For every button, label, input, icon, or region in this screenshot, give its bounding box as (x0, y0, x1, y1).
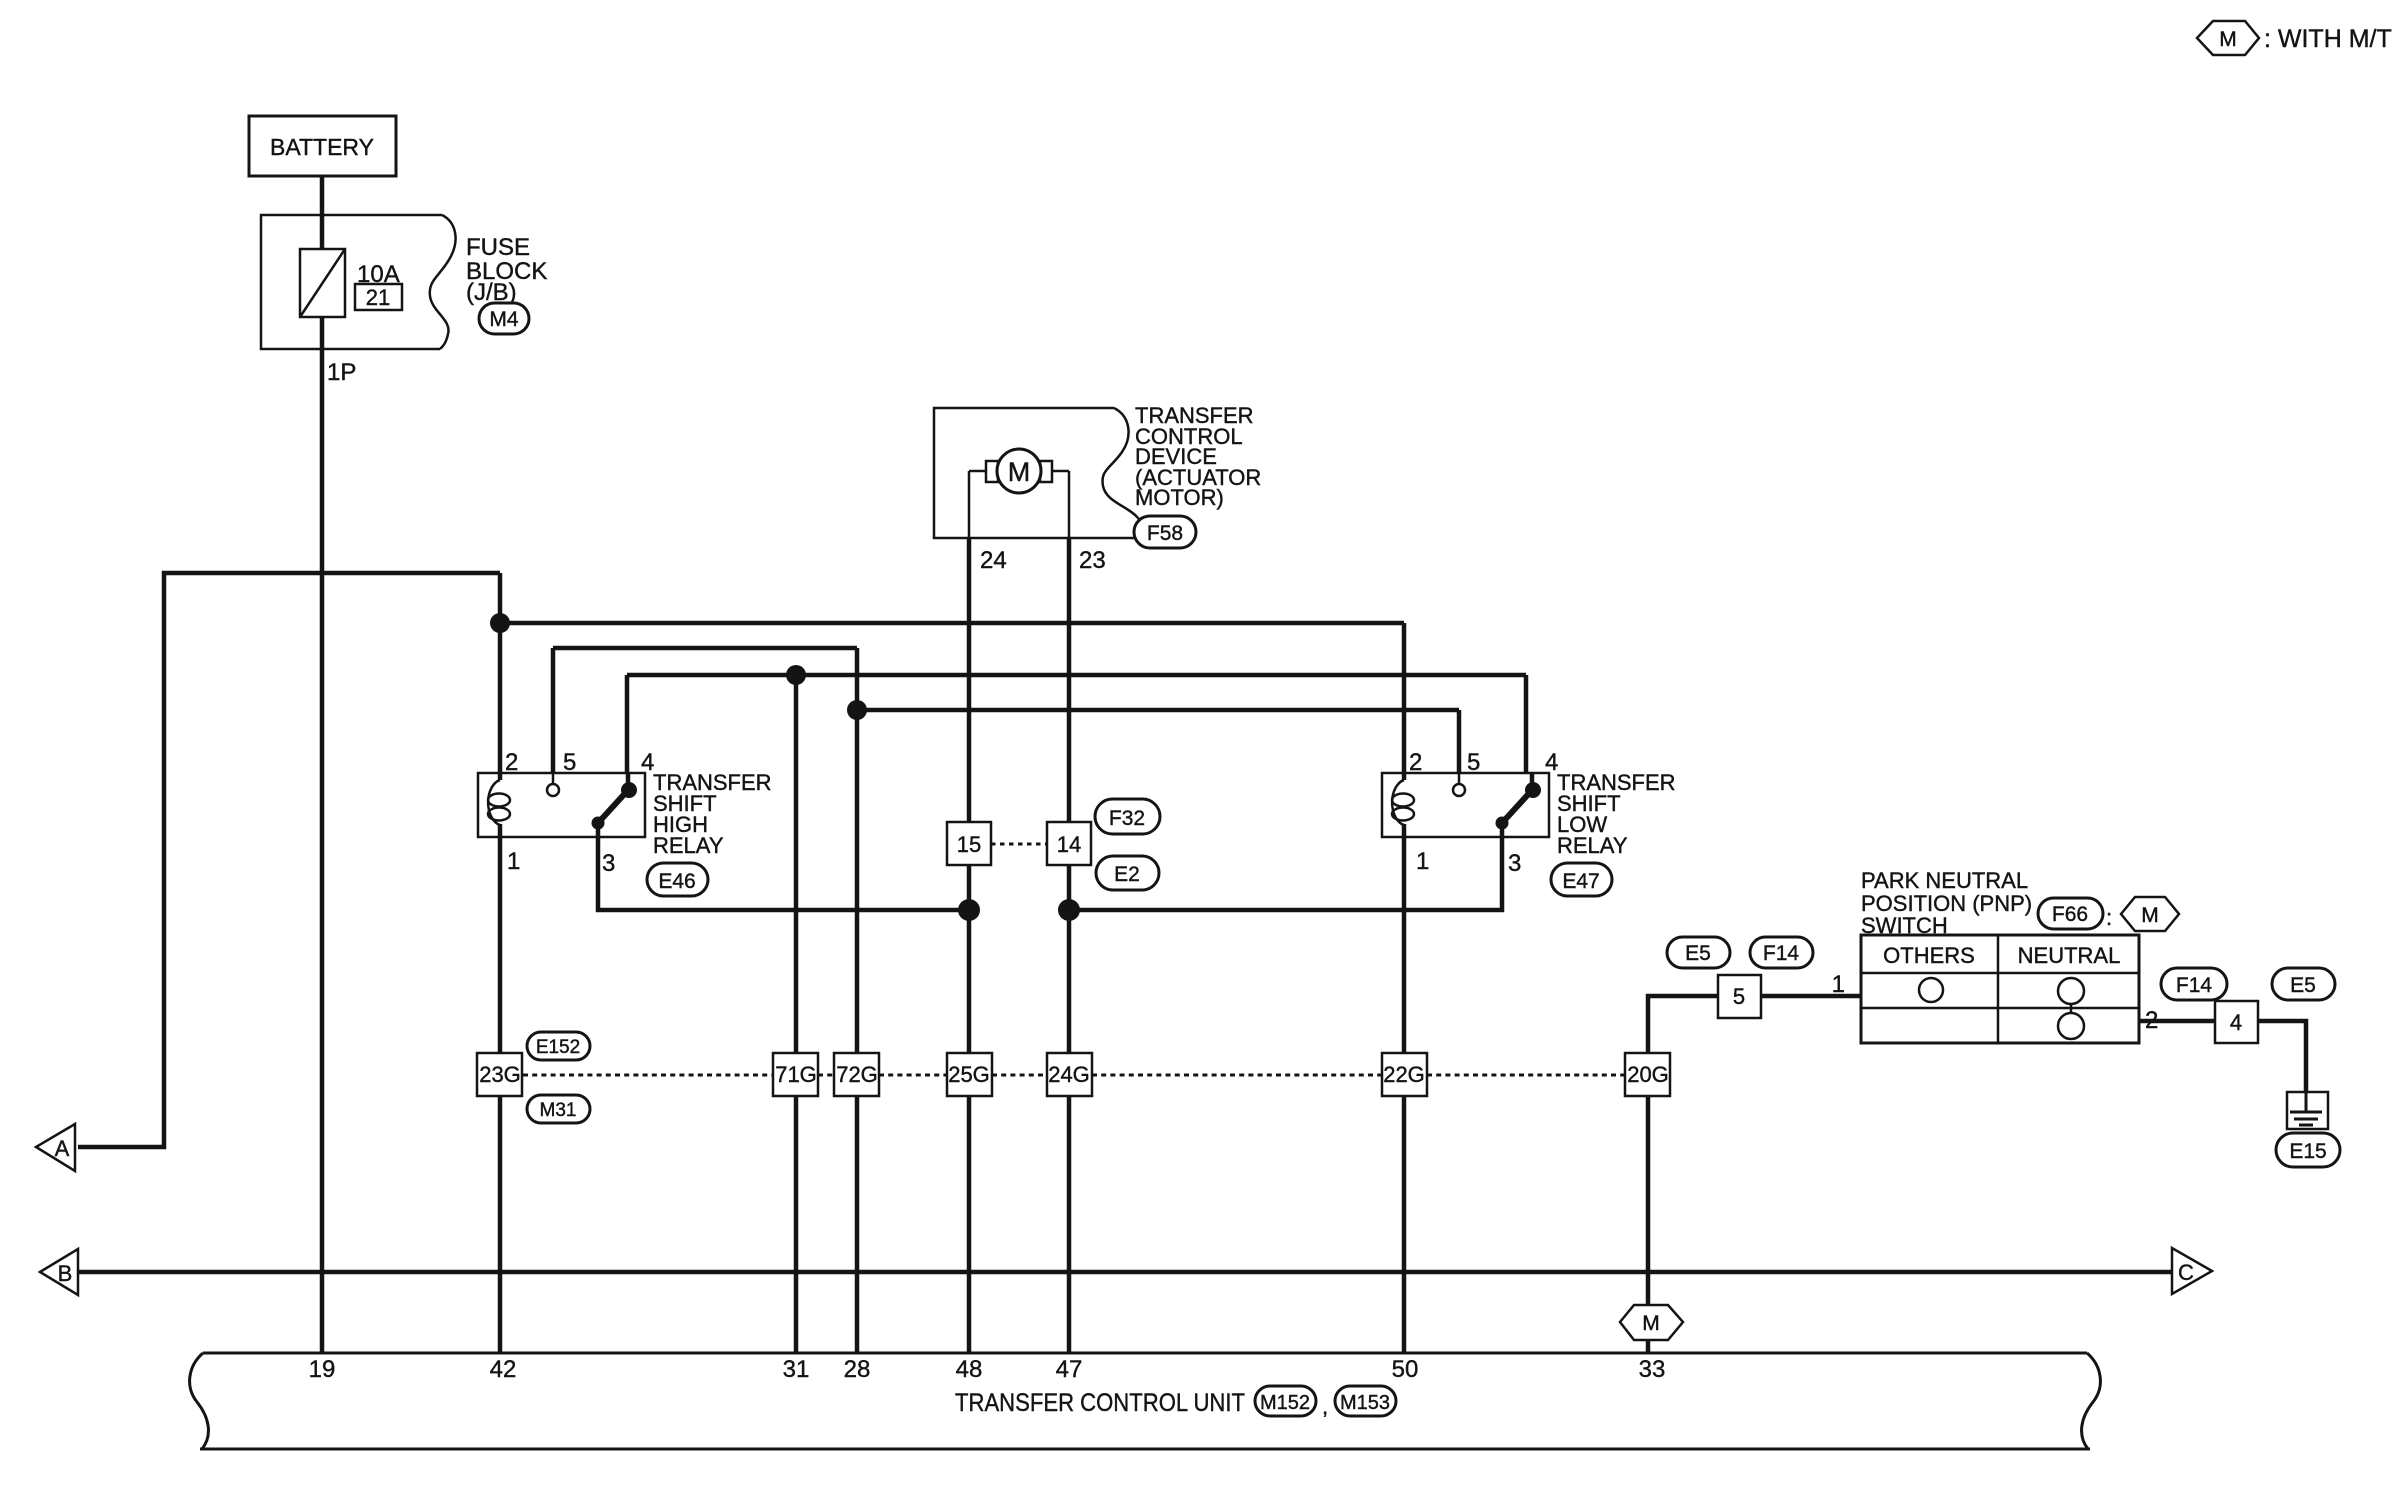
svg-text:3: 3 (602, 850, 615, 877)
svg-text:M: M (2141, 904, 2159, 927)
connector M31 (527, 1095, 590, 1123)
wire high relay pin 3 to node (598, 823, 969, 910)
svg-text:1: 1 (507, 848, 520, 875)
connector E47 (1551, 863, 1612, 896)
svg-text:E152: E152 (536, 1037, 580, 1058)
svg-text:RELAY: RELAY (1557, 833, 1628, 858)
svg-text:E15: E15 (2289, 1140, 2326, 1163)
svg-text:5: 5 (1467, 749, 1480, 776)
node A arrow (36, 1124, 75, 1171)
svg-text:E46: E46 (658, 870, 695, 893)
node C arrow (2172, 1248, 2212, 1294)
connector pin box 4 (2215, 1001, 2258, 1043)
fuse block M4 outline (261, 215, 456, 349)
connector E46 (647, 863, 708, 896)
ground E15 (2287, 1092, 2328, 1129)
svg-text:F14: F14 (1763, 942, 1800, 965)
svg-text:33: 33 (1639, 1356, 1666, 1383)
svg-text:23G: 23G (479, 1062, 521, 1087)
legend M/T hexagon (2197, 21, 2259, 55)
node TCU48 junction (958, 899, 980, 921)
svg-text:MOTOR): MOTOR) (1135, 485, 1224, 510)
connector E152 (527, 1032, 590, 1060)
svg-text:F14: F14 (2176, 974, 2213, 997)
svg-text:24: 24 (980, 547, 1007, 574)
connector E15 (2276, 1133, 2340, 1167)
wire high relay pin 4 drop (625, 675, 630, 773)
wire battery to fuse (320, 176, 325, 249)
wire low relay pin 5 drop (1457, 710, 1462, 773)
svg-text:48: 48 (956, 1356, 983, 1383)
svg-text:1: 1 (1832, 971, 1845, 998)
svg-text:M153: M153 (1340, 1392, 1390, 1414)
connector F58 (1134, 516, 1196, 548)
wire from node A up and across to relay feed (78, 573, 500, 1147)
connector E5 right (2272, 968, 2335, 1000)
svg-text:: WITH M/T: : WITH M/T (2264, 25, 2392, 53)
svg-text:23: 23 (1079, 547, 1106, 574)
svg-text:2: 2 (2145, 1007, 2158, 1034)
svg-text:FUSE: FUSE (466, 234, 530, 261)
wire low relay pin 2 drop (1402, 623, 1407, 773)
connector box 25G (947, 1053, 992, 1096)
transfer control device F58 box (934, 408, 1153, 538)
svg-text:14: 14 (1057, 832, 1081, 857)
svg-text:M4: M4 (489, 308, 518, 331)
PNP switch table F66 (1861, 935, 2139, 1043)
connector M153 (1335, 1386, 1396, 1416)
motor M symbol U1 (969, 449, 1069, 538)
node TCU28 junction (847, 700, 867, 720)
connector box 72G (834, 1053, 879, 1096)
svg-text:F58: F58 (1147, 522, 1183, 545)
svg-text:M: M (1008, 457, 1031, 487)
svg-text:47: 47 (1056, 1356, 1083, 1383)
svg-text:M152: M152 (1260, 1392, 1310, 1414)
svg-text:3: 3 (1508, 850, 1521, 877)
connector E5 left (1667, 937, 1730, 968)
svg-text:C: C (2178, 1260, 2194, 1285)
connector box 24G (1047, 1053, 1092, 1096)
wire high relay pin 4 to low relay pin 4 (627, 673, 1526, 678)
svg-text:E5: E5 (1685, 942, 1711, 965)
wire TCU pin 31 drop (794, 675, 799, 1353)
connector pin box 15 (947, 822, 991, 865)
connector E2 (1096, 856, 1159, 890)
svg-text:24G: 24G (1048, 1062, 1090, 1087)
connector F14 left (1750, 937, 1813, 968)
svg-text:PARK NEUTRAL: PARK NEUTRAL (1861, 868, 2028, 893)
wire to low relay pin 5 (857, 708, 1459, 713)
svg-text:20G: 20G (1627, 1062, 1669, 1087)
M/T hexagon at F66 (2121, 897, 2179, 931)
transfer shift low relay E47 (1382, 773, 1549, 837)
connector pin box 14 (1047, 822, 1091, 865)
dashed link 15 to 14 (991, 843, 1047, 846)
wire PNP switch pin 2 to ground (2139, 1021, 2306, 1111)
svg-text:5: 5 (1733, 984, 1745, 1009)
svg-text::: : (2106, 905, 2112, 930)
svg-text:72G: 72G (836, 1062, 878, 1087)
svg-text:21: 21 (366, 285, 390, 310)
svg-text:42: 42 (490, 1356, 517, 1383)
connector M4 (479, 303, 529, 334)
wire motor pin 24 to TCU pin 48 (967, 538, 972, 1353)
svg-text:E5: E5 (2290, 974, 2316, 997)
svg-text:19: 19 (309, 1356, 336, 1383)
svg-text:1: 1 (1416, 848, 1429, 875)
svg-text:25G: 25G (948, 1062, 990, 1087)
connector box 20G (1625, 1053, 1670, 1096)
wire high relay pin 5 drop (551, 648, 556, 773)
wire motor pin 23 to TCU pin 47 (1067, 538, 1072, 1353)
connector pin box 5 (1718, 975, 1761, 1018)
connector F14 right (2161, 968, 2227, 1000)
node TCU47 junction (1058, 899, 1080, 921)
wire bus B to C (78, 1270, 2172, 1275)
fuse 10A 21 (300, 249, 402, 317)
svg-text:22G: 22G (1383, 1062, 1425, 1087)
wire low relay pin 4 drop (1524, 675, 1529, 773)
battery BATTERY (249, 116, 396, 176)
transfer control unit box M152 M153 (190, 1353, 2101, 1449)
wire low relay pin 3 to node (1069, 823, 1502, 910)
node TCU31 junction (786, 665, 806, 685)
node battery feed junction (490, 613, 510, 633)
connector box 23G (477, 1053, 522, 1096)
svg-text:RELAY: RELAY (653, 833, 724, 858)
svg-text:F66: F66 (2052, 903, 2088, 926)
svg-text:50: 50 (1392, 1356, 1419, 1383)
wire high relay pin 5 feed (553, 646, 857, 651)
svg-text:BATTERY: BATTERY (270, 134, 374, 160)
node B arrow (40, 1249, 78, 1295)
M/T hexagon on TCU33 wire (1620, 1305, 1683, 1340)
svg-text:71G: 71G (775, 1062, 817, 1087)
svg-text:F32: F32 (1109, 807, 1145, 830)
svg-text:2: 2 (1409, 749, 1422, 776)
svg-text:TRANSFER CONTROL UNIT: TRANSFER CONTROL UNIT (955, 1389, 1245, 1417)
connector M152 (1255, 1386, 1316, 1416)
wire node at (500,623) down to high relay pin 2 (498, 573, 503, 773)
svg-text:M: M (1642, 1312, 1660, 1335)
svg-text:M31: M31 (540, 1100, 577, 1121)
svg-text:B: B (58, 1261, 73, 1286)
wire fuse to TCU pin 19 (320, 314, 325, 1353)
wire TCU pin 33 up to PNP switch pin 1 (1648, 996, 1861, 1353)
svg-text:OTHERS: OTHERS (1883, 943, 1975, 968)
wire vertical to TCU pin 28 (855, 648, 860, 1353)
wire high relay pin 1 to TCU pin 42 (498, 837, 503, 1353)
svg-text:,: , (1322, 1394, 1328, 1419)
connector box 71G (773, 1053, 818, 1096)
svg-text:31: 31 (783, 1356, 810, 1383)
transfer shift high relay E46 (478, 773, 645, 837)
svg-text:A: A (55, 1136, 70, 1161)
svg-text:5: 5 (563, 749, 576, 776)
dashed harness row (523, 1074, 1625, 1077)
connector F32 (1095, 799, 1160, 834)
svg-text:1P: 1P (327, 359, 356, 386)
svg-text:E2: E2 (1114, 863, 1140, 886)
svg-text:E47: E47 (1562, 870, 1599, 893)
connector F66 (2038, 898, 2103, 929)
svg-text:NEUTRAL: NEUTRAL (2018, 943, 2121, 968)
wire low relay pin 1 to TCU pin 50 (1402, 837, 1407, 1353)
svg-text:M: M (2219, 28, 2237, 51)
wire bus to low relay pin 2 (500, 621, 1404, 626)
svg-text:2: 2 (505, 749, 518, 776)
connector box 22G (1382, 1053, 1427, 1096)
svg-text:15: 15 (957, 832, 981, 857)
svg-text:28: 28 (844, 1356, 871, 1383)
svg-text:4: 4 (2230, 1010, 2242, 1035)
